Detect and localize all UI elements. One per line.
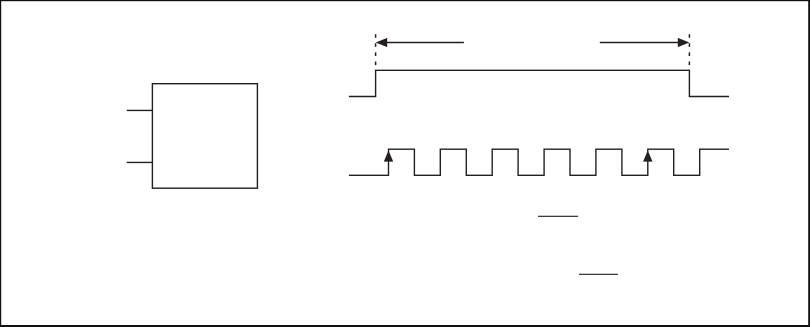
IC U1 box (152, 84, 257, 189)
dimension arrow right (600, 38, 690, 47)
watchdog output pulse waveform (349, 70, 729, 96)
pin 2 wire (127, 161, 153, 163)
overbar label line A (538, 215, 578, 217)
dashed marker line right (688, 34, 690, 70)
clock waveform (349, 149, 729, 175)
dashed marker line left (375, 34, 377, 70)
pin 1 wire (127, 109, 153, 111)
rising edge arrow 2 (643, 150, 652, 161)
dimension arrow left (376, 38, 464, 47)
rising edge arrow 1 (384, 150, 393, 161)
overbar label line B (579, 273, 618, 275)
